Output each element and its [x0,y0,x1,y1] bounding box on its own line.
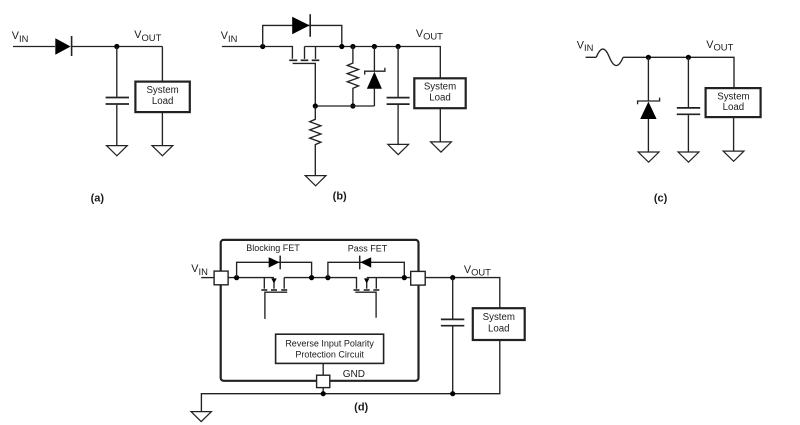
net label VOUT (b) [416,28,443,42]
ground (b) gate resistor [305,176,326,186]
ground (b) capacitor [388,144,409,154]
transistor Q1 pass FET (b) [289,47,319,61]
node body-diode left leg (pass) [325,275,330,280]
svg-text:Pass FET: Pass FET [348,243,388,253]
net label VOUT (d) [464,264,491,278]
svg-text:VIN: VIN [221,30,238,44]
wire body-diode loop (blocking FET) [237,262,312,277]
fuse / input squiggle (c) [596,49,623,66]
svg-text:Reverse Input Polarity: Reverse Input Polarity [285,339,374,349]
wire capacitor to ground [116,105,118,146]
gate wire pass FET [355,292,376,318]
node drain/body-diode (b) [339,44,344,49]
capacitor C (b) [387,98,410,105]
wire body-diode loop (pass FET) [328,262,404,277]
svg-text:Protection Circuit: Protection Circuit [295,349,364,359]
node capacitor on rail [450,391,455,396]
ground (b) load [431,142,452,152]
node junction (a) [114,44,119,49]
wire VIN stub to pad [201,277,214,279]
zener TVS diode (c) [638,57,660,152]
wire VIN to diode [13,46,55,48]
wire capacitor to ground rail (d) [452,327,454,394]
svg-text:VOUT: VOUT [134,29,161,43]
svg-text:(c): (c) [654,193,668,205]
wire blocking FET drain to pass FET source [284,278,356,289]
ground (a) capacitor [107,146,128,156]
node zener top (b) [372,44,377,49]
wire node to capacitor [116,47,118,97]
pin pad VOUT [411,271,426,285]
node body-diode right leg (blocking) [309,275,314,280]
label Blocking FET [246,243,300,253]
svg-text:VIN: VIN [191,263,208,277]
resistor R1 gate-drain (b) [347,47,358,107]
net label VIN (d) [191,263,208,277]
net label VOUT (a) [134,29,161,43]
label Pass FET [348,243,388,253]
svg-text:VIN: VIN [577,39,594,53]
svg-text:Load: Load [488,324,510,335]
label GND [343,369,365,380]
body diode (b) [292,14,310,37]
node body-diode right leg (pass) [402,275,407,280]
svg-text:(d): (d) [354,401,368,413]
svg-text:VOUT: VOUT [706,39,733,53]
svg-text:Load: Load [723,102,745,113]
caption (d) [354,401,368,413]
system load box (b) [414,78,465,108]
system load box (a) [135,82,189,113]
wire capacitor to ground (c) [687,115,689,152]
pin pad GND [317,375,330,387]
ground (a) load [152,146,173,156]
IC outline box U1 [221,240,419,381]
node GND on rail [321,391,326,396]
wire pad to blocking FET [228,277,274,279]
node resistor top (b) [350,44,355,49]
svg-text:(b): (b) [333,190,347,202]
svg-text:Load: Load [152,96,174,107]
svg-text:VOUT: VOUT [464,264,491,278]
wire load to ground (c) [733,117,735,151]
wire body-diode loop (b) [263,25,342,46]
body diode pass FET [360,256,372,270]
svg-text:Load: Load [429,93,451,104]
wire fuse to VOUT corner (c) [623,57,734,88]
svg-text:Blocking FET: Blocking FET [246,243,300,253]
ground (c) capacitor [678,152,699,162]
net label VIN (b) [221,30,238,44]
wire VOUT pad to load corner [425,278,500,309]
wire capacitor to ground (b) [397,105,399,144]
svg-text:GND: GND [343,369,365,380]
node zener top (c) [646,55,651,60]
wire gate node rail (b) [315,105,375,107]
ground (d) [191,412,211,422]
gate wire blocking FET [265,292,287,319]
node capacitor top (c) [686,55,691,60]
body diode blocking FET [269,256,281,270]
node body-diode left (b) [260,44,265,49]
wire VOUT corner down to load [161,47,163,82]
wire pass FET drain to VOUT pad [367,277,411,279]
wire capacitor branch (c) [687,57,689,107]
transistor Q1 blocking FET [261,278,287,290]
protection circuit block [276,334,384,363]
net label VIN (a) [12,30,29,44]
svg-text:VOUT: VOUT [416,28,443,42]
svg-text:System: System [483,312,515,323]
node capacitor top (d) [450,275,455,280]
ground rail (d) [201,340,499,411]
node resistor bottom (b) [350,103,355,108]
gate wire of Q1 down to gate node rail [293,63,316,106]
caption (a) [91,193,105,205]
caption (c) [654,193,668,205]
system load box (c) [706,88,761,117]
svg-text:(a): (a) [91,193,105,205]
node gate rail left (b) [313,103,318,108]
wire capacitor branch (d) [452,278,454,319]
svg-text:System: System [424,81,456,92]
wire drain to VOUT corner (b) [305,47,441,79]
wire protection block to GND pad [322,363,324,375]
transistor Q2 pass FET [354,278,380,290]
net label VIN (c) [577,39,594,53]
ground (c) zener [638,152,659,162]
capacitor C (c) [677,108,700,114]
wire load to ground [161,112,163,145]
svg-text:System: System [717,91,749,102]
wire capacitor branch (b) [397,47,399,97]
wire diode to VOUT corner [72,46,163,48]
wire GND pad to rail [322,388,324,394]
diode D (a) [55,36,71,56]
svg-text:System: System [146,85,178,96]
wire VIN to fuse [586,56,597,58]
system load box (d) [473,308,525,340]
node capacitor top (b) [396,44,401,49]
pin pad VIN [214,271,228,285]
net label VOUT (c) [706,39,733,53]
ground (c) load [723,151,744,161]
capacitor C (d) [441,319,464,325]
caption (b) [333,190,347,202]
capacitor C (a) [106,98,129,105]
node body-diode left leg (blocking) [234,275,239,280]
zener diode clamp (b) [365,47,385,107]
wire VIN to FET source [222,47,293,59]
wire load to ground (b) [439,108,441,142]
resistor R2 gate-ground (b) [310,106,321,175]
svg-text:VIN: VIN [12,30,29,44]
